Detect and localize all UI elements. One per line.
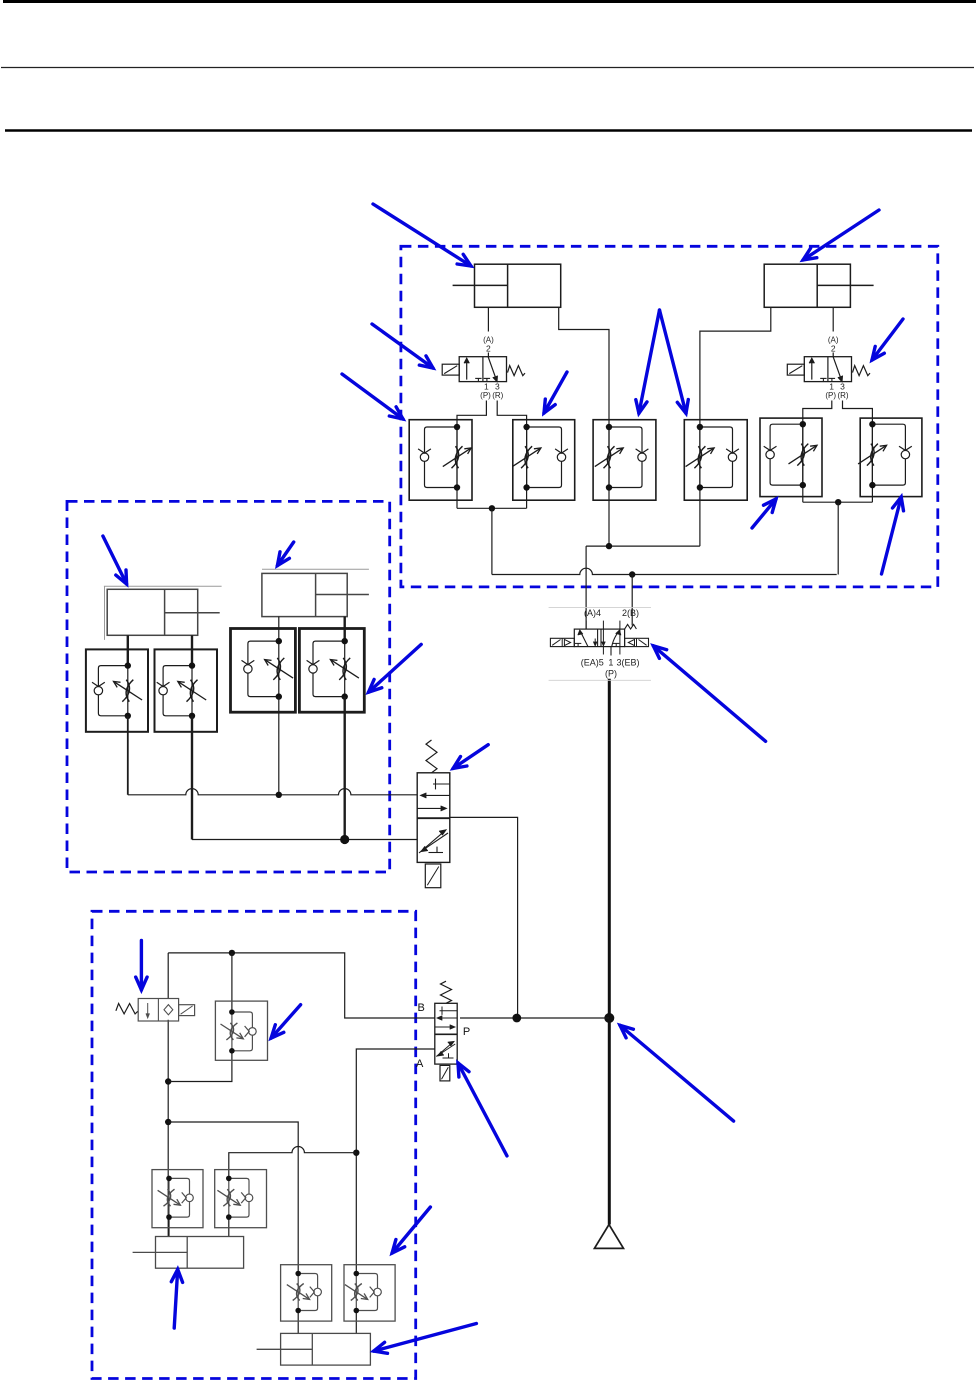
annotation arrow to CYL-3 [103, 536, 127, 584]
wire FCV-B down to lower rail [191, 716, 193, 840]
flow control valve FCV-1 [409, 420, 472, 501]
flow control valve FCV-A [86, 649, 148, 731]
flow control valve FCV-F [152, 1170, 203, 1228]
document header top bar [3, 0, 976, 3]
pilot valve V2 (3-port, ports B P A) [435, 981, 457, 1081]
svg-text:(P): (P) [825, 391, 836, 400]
wire FCV-1 through line [456, 427, 458, 508]
wire left vertical upper [167, 953, 169, 998]
annotation arrow to valve V2 [458, 1063, 507, 1156]
annotation arrow to FCV-E [271, 1005, 301, 1038]
wire valve V-L port 2 stub [487, 353, 489, 357]
op main valve U1 5-port 2-position body [550, 621, 648, 656]
annotation arrow to CYL-4 [277, 542, 293, 566]
flow control valve FCV-D [299, 629, 364, 713]
wire port 4 drop [585, 546, 587, 629]
wire valve V-L port 3 to FCV-2 [497, 401, 526, 428]
wire FCV-6 through line [871, 424, 873, 502]
wire FCV-A down [127, 716, 129, 795]
wire CYL-1 port A down [487, 307, 489, 331]
svg-text:P: P [463, 1026, 470, 1038]
wire FCV-E to left vertical [168, 1051, 232, 1082]
flow control valve FCV-B [155, 649, 218, 731]
annotation arrow to main valve U1 [653, 646, 765, 742]
annotation arrow to valve V-L [372, 324, 433, 368]
flow control valve FCV-H [281, 1265, 332, 1321]
junction FCV-C on upper rail [276, 792, 282, 798]
cylinder CYL-1 (top left) [453, 264, 561, 307]
wire CYL-3 right port [191, 635, 193, 665]
svg-text:2: 2 [831, 344, 836, 354]
flow control valve FCV-4 [684, 420, 747, 501]
annotation arrow to main junction [620, 1025, 734, 1121]
svg-text:(P): (P) [480, 391, 491, 400]
svg-text:3(EB): 3(EB) [617, 658, 640, 668]
annotation arrow to FCV-6 [882, 497, 904, 574]
svg-text:(R): (R) [837, 391, 848, 400]
annotation arrow to FCV-1 [342, 374, 403, 419]
wire CYL-1 right port to FCV-3 [559, 307, 609, 546]
annotation arrow to CYL-1 [373, 204, 471, 266]
annotation arrow to valve V1 [453, 745, 488, 769]
wire FCV-H to CYL-6 [297, 1311, 299, 1334]
svg-text:3: 3 [840, 381, 845, 391]
wire rail under FCV-1/2 [457, 507, 527, 509]
wire FCV-C down [278, 697, 280, 795]
pilot valve V1 (3-port, spring top) [417, 740, 450, 888]
grey echo line left of cylinder CYL-3 [104, 586, 106, 640]
wire header FCV-3/FCV-4 to port 4 [586, 545, 700, 547]
junction under FCV-5/6 [835, 499, 841, 505]
annotation arrow to CYL-6 [374, 1324, 477, 1354]
main supply line from port 1(P) [608, 679, 611, 1225]
flow control valve FCV-5 [760, 418, 822, 497]
annotation arrow to CYL-2 [803, 210, 879, 260]
svg-text:3: 3 [495, 381, 500, 391]
wire lower rail (net B1) [192, 839, 417, 841]
wire V1 output to main junction [450, 817, 518, 1018]
wire net A to FCV-I [356, 1049, 435, 1274]
svg-text:(R): (R) [492, 391, 503, 400]
wire net B top line [168, 953, 435, 1018]
annotation arrow to FCV-5 [752, 499, 776, 528]
flow control valve FCV-3 [593, 420, 656, 501]
wire CYL-2 port A down [832, 307, 834, 331]
wire valve V-R port 2 stub [832, 353, 834, 357]
annotation arrow to FCV-I [392, 1207, 430, 1253]
wire cross line FCV-G with jump over FCV-H drop [229, 1147, 356, 1179]
wire FCV-E drop [231, 953, 233, 1012]
svg-text:2(B): 2(B) [622, 608, 639, 618]
wire rail under FCV-5/6 [803, 501, 873, 503]
wire CYL-3 left port [127, 635, 129, 665]
grey echo rule below main valve [549, 679, 651, 681]
flow control valve FCV-E [215, 1001, 267, 1060]
junction port 2 tap on bus [629, 571, 635, 577]
wire drop from FCV-1/2 rail [491, 508, 493, 574]
bypass valve MV (spring left, pilot right) [116, 999, 195, 1022]
annotation arrow to FCV-2 [544, 372, 567, 413]
document header rule 1 [1, 67, 974, 69]
wire upper rail (net A1) with two crossover jumps [128, 789, 417, 795]
wire FCV-F to CYL-5 [168, 1217, 170, 1236]
wire left vertical lower [167, 1020, 169, 1237]
wire drop from FCV-5/6 rail [837, 502, 839, 574]
wire FCV-I to CYL-6 [355, 1311, 357, 1334]
document header rule 2 [5, 129, 972, 132]
wire branch to FCV-H [168, 1122, 298, 1274]
wire FCV-D down to lower rail [344, 697, 346, 840]
flow control valve FCV-G [215, 1170, 267, 1228]
svg-text:2: 2 [486, 344, 491, 354]
junction V1 output on net P [512, 1014, 521, 1023]
cylinder CYL-5 (bottom left) [133, 1237, 244, 1269]
svg-text:(A)4: (A)4 [584, 608, 601, 618]
junction branch to FCV-H [165, 1119, 171, 1125]
svg-text:1: 1 [484, 381, 489, 391]
annotation arrow to FCV-D [369, 644, 422, 692]
dashed group box - bottom left station [92, 911, 416, 1378]
grey echo line above cylinder CYL-4 [262, 568, 369, 570]
main junction to station valves [604, 1013, 614, 1023]
flow control valve FCV-I [344, 1265, 395, 1321]
annotation double arrow to FCV-3 and FCV-4 [636, 310, 660, 413]
cylinder CYL-3 (middle box left) [107, 589, 220, 635]
wire FCV-2 through line [526, 427, 528, 508]
wire FCV-5 through line [802, 424, 804, 502]
cylinder CYL-6 (bottom right) [257, 1333, 371, 1365]
grey echo line above cylinder CYL-3 [104, 585, 222, 587]
cylinder CYL-4 (middle box right) [262, 573, 369, 616]
flow control valve FCV-6 [858, 418, 922, 497]
wire valve V-L port 1 to FCV-1 [457, 401, 486, 428]
cylinder CYL-2 (top right) [764, 264, 873, 307]
annotation arrow to bypass valve MV [136, 941, 147, 990]
junction under FCV-1/2 [489, 505, 495, 511]
annotation arrow to valve V-R [872, 319, 903, 360]
dashed group box - middle left station [67, 501, 390, 872]
svg-text:(P): (P) [605, 669, 617, 679]
wire CYL-4 right port [344, 617, 346, 642]
annotation arrow to CYL-5 [171, 1269, 182, 1328]
junction net A cross line [353, 1150, 359, 1156]
flow control valve FCV-C [231, 629, 296, 713]
junction bypass return [165, 1078, 171, 1084]
wire CYL-2 left port to FCV-4 [700, 307, 771, 546]
svg-text:1: 1 [829, 381, 834, 391]
svg-text:(EA)5: (EA)5 [581, 658, 604, 668]
bus wire to port 2 with crossover jump [492, 568, 837, 574]
wire valve V-R port 1 to FCV-5 [803, 401, 832, 425]
svg-text:B: B [418, 1002, 425, 1014]
valve V-R 3-port 2-position [787, 357, 870, 382]
dashed group box - top right station [401, 246, 938, 587]
junction FCV-D on lower rail [340, 835, 349, 844]
grey echo rule above main valve [549, 606, 651, 608]
wire net P from valve V2 to main [460, 1017, 609, 1019]
wire CYL-4 left port [278, 617, 280, 642]
junction FCV-3 on header [606, 543, 612, 549]
wire valve V-R port 3 to FCV-6 [843, 401, 873, 425]
junction FCV-E tap on net B [229, 950, 235, 956]
wire port 2 drop [631, 575, 633, 626]
flow control valve FCV-2 [512, 420, 574, 501]
svg-text:1: 1 [608, 658, 613, 668]
wire FCV-G to CYL-5 [228, 1217, 230, 1236]
air supply triangle symbol [594, 1225, 623, 1249]
svg-text:A: A [416, 1058, 424, 1070]
valve V-L 3-port 2-position [442, 357, 525, 382]
